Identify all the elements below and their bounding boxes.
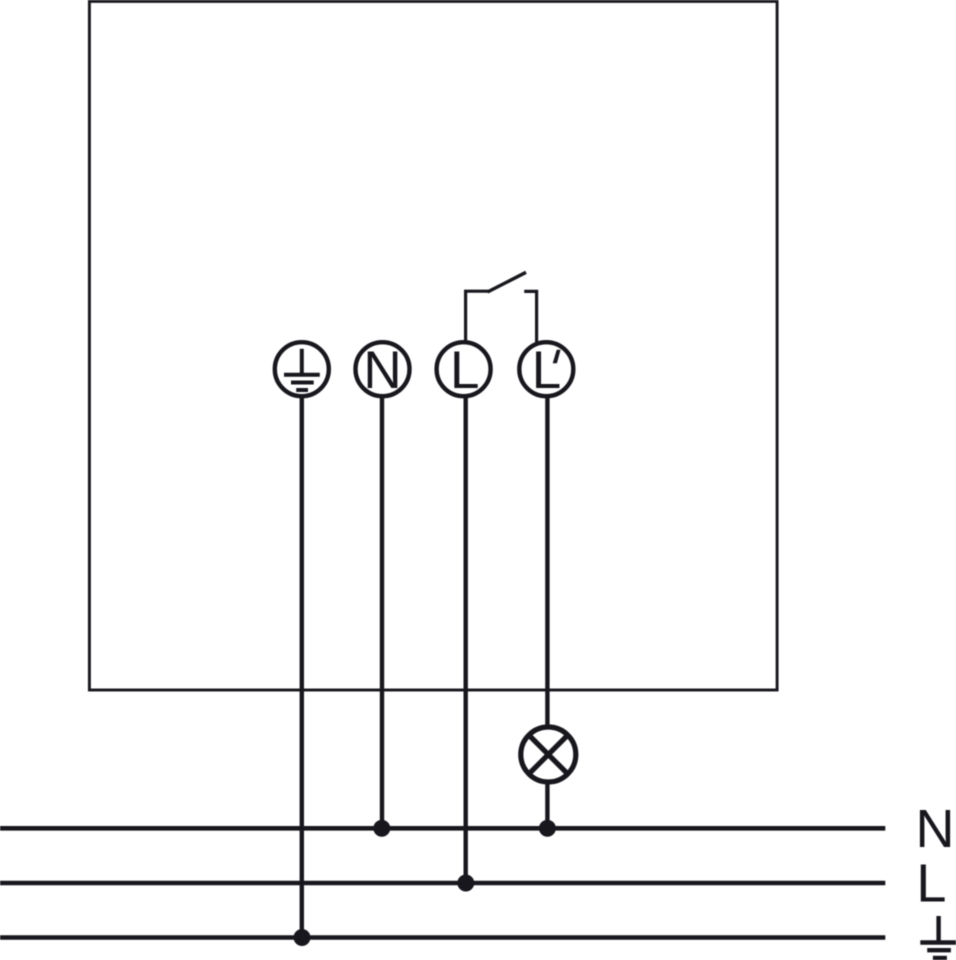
wire lamp down to N bus bbox=[545, 781, 549, 828]
ground symbol middle bar bbox=[927, 948, 951, 952]
junction dot N wire / N bus bbox=[373, 820, 390, 837]
wire L terminal down to L bus bbox=[464, 396, 468, 884]
L bus line bbox=[0, 881, 885, 886]
wire PE terminal down to earth bus bbox=[300, 396, 304, 938]
wire N terminal down to N bus bbox=[380, 396, 384, 829]
svg-text:N: N bbox=[916, 799, 955, 859]
svg-text:L: L bbox=[916, 853, 946, 913]
ground symbol long bar bbox=[920, 940, 956, 944]
PE symbol middle bar bbox=[291, 381, 314, 385]
svg-text:L: L bbox=[450, 341, 479, 400]
ground symbol short bar bbox=[933, 956, 947, 960]
terminal L' circle bbox=[519, 342, 573, 396]
earth bus line bbox=[0, 935, 885, 940]
PE symbol short bar bbox=[296, 388, 308, 392]
PE symbol long bar bbox=[284, 373, 320, 377]
N bus line bbox=[0, 826, 885, 831]
terminal L circle bbox=[437, 342, 491, 396]
junction dot PE wire / earth bus bbox=[294, 929, 311, 946]
junction dot L wire / L bus bbox=[457, 875, 474, 892]
terminal L' apostrophe mark bbox=[553, 350, 561, 364]
terminal N circle bbox=[356, 342, 410, 396]
ground symbol bottom right: stem bbox=[936, 916, 940, 943]
lamp (circle with cross) bbox=[521, 727, 576, 782]
PE symbol stem bbox=[300, 349, 304, 375]
wire from L terminal up to switch bbox=[466, 291, 489, 343]
svg-text:N: N bbox=[363, 341, 401, 400]
terminal PE (earth) circle bbox=[275, 342, 329, 396]
device enclosure box bbox=[89, 1, 777, 690]
switch fixed contact / wire down to L' terminal bbox=[524, 291, 536, 343]
junction dot lamp wire / N bus bbox=[539, 820, 556, 837]
wire L' terminal down to lamp bbox=[545, 396, 549, 729]
switch blade bbox=[488, 272, 527, 292]
